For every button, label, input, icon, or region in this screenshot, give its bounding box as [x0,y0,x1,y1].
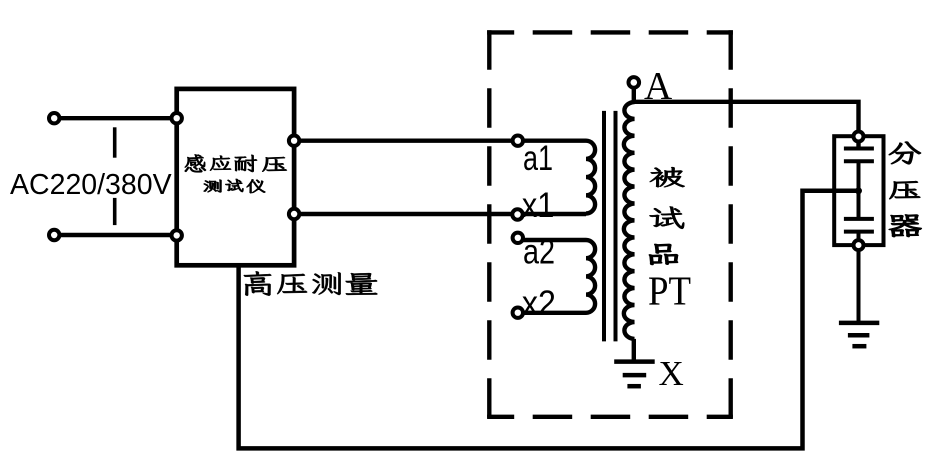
svg-text:x2: x2 [522,284,556,323]
U1 terminal left bottom [172,230,182,240]
transformer primary winding W2 (a2-x2) [586,240,595,313]
dashed boundary box test object [487,30,733,419]
wire AC top [59,116,177,120]
transformer primary winding W1 (a1-x1) [586,141,595,214]
wire x2 lead [518,311,586,315]
U1 terminal right top [289,136,299,146]
svg-text:X: X [659,354,684,393]
U1 terminal left top [172,113,182,123]
AC terminal top [49,113,59,123]
svg-text:a2: a2 [523,233,555,272]
wire A to divider [634,102,859,149]
svg-text:a1: a1 [523,139,553,178]
divider box [834,136,883,245]
capacitor C2 [844,191,874,323]
transformer core [604,111,616,342]
wire U1 to x1 [294,212,586,216]
divider terminal top [854,132,864,142]
U1 terminal right bottom [289,209,299,219]
label 被试品 device under test [649,167,685,265]
dashed line AC source [113,127,117,225]
svg-text:A: A [644,64,672,107]
label 分压器 voltage divider [889,142,922,238]
terminal a2 [513,233,523,243]
AC terminal bottom [49,230,59,240]
wire return path measure loop [239,191,859,449]
ground under divider [839,323,879,346]
label 感应耐压 tester line1 [185,154,287,172]
terminal x2 [513,308,523,318]
node tap junction [855,187,862,194]
wire a2 lead [518,238,586,242]
label 测试仪 tester line2 [204,179,266,193]
ground X transformer [614,362,655,387]
wire AC bottom [59,233,177,237]
wire X stub [632,339,636,362]
terminal a1 [513,136,523,146]
transformer secondary winding PT [624,102,635,339]
terminal A [629,77,640,88]
svg-text:x1: x1 [522,186,555,225]
divider terminal bottom [854,240,864,250]
capacitor C1 [844,149,874,191]
tester box U1 [177,89,294,265]
wire U1 to a1 [294,138,586,142]
svg-text:PT: PT [648,267,691,313]
svg-text:AC220/380V: AC220/380V [10,169,172,201]
label 高压测量 HV measurement [244,271,378,296]
terminal x1 [512,209,522,219]
node A stub [632,82,636,101]
